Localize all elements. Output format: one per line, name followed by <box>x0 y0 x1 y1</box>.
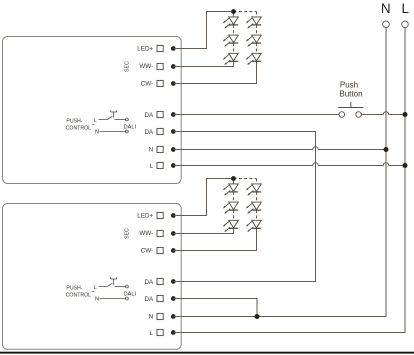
svg-text:Button: Button <box>339 90 362 99</box>
svg-text:L: L <box>402 1 410 16</box>
svg-text:Push: Push <box>340 80 358 89</box>
svg-text:N: N <box>381 1 391 16</box>
